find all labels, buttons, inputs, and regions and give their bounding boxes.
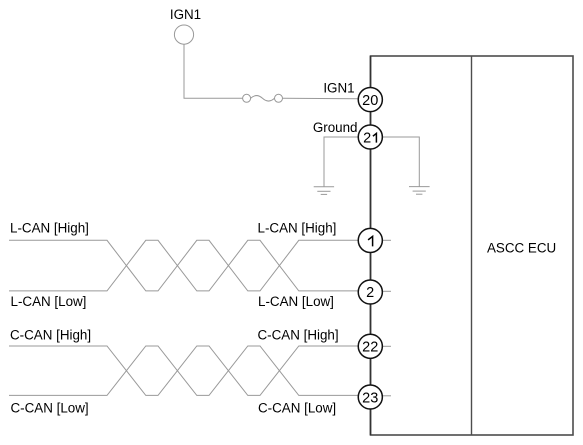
wire L-CAN twisted pair: low strand bbox=[9, 240, 359, 291]
ASCC ECU box U1 bbox=[371, 56, 574, 435]
wire fuse to pin 20 bbox=[283, 97, 360, 100]
ECU left edge pin bus wire bbox=[370, 56, 372, 435]
svg-text:L-CAN [High]: L-CAN [High] bbox=[10, 220, 89, 235]
pin 20 bbox=[358, 88, 382, 112]
wire L-CAN twisted pair: high strand bbox=[9, 240, 359, 291]
wire stub inside ECU at pin 1 bbox=[383, 239, 392, 241]
svg-text:C-CAN [High]: C-CAN [High] bbox=[258, 328, 339, 343]
wire IGN1 vertical drop bbox=[184, 44, 243, 98]
wire pin 21 to right ground bbox=[383, 137, 420, 187]
svg-text:2: 2 bbox=[366, 285, 374, 301]
pin 1 bbox=[358, 228, 382, 252]
svg-text:L-CAN [Low]: L-CAN [Low] bbox=[11, 294, 87, 309]
ground symbol right bbox=[409, 187, 430, 195]
wire stub inside ECU at pin 23 bbox=[383, 395, 392, 397]
IGN1 power source circle bbox=[174, 25, 193, 44]
svg-text:23: 23 bbox=[362, 390, 378, 406]
fuse element wave bbox=[251, 96, 275, 102]
svg-text:C-CAN [Low]: C-CAN [Low] bbox=[258, 401, 336, 416]
pin 21 bbox=[358, 125, 382, 149]
svg-text:20: 20 bbox=[362, 93, 378, 109]
svg-text:C-CAN [Low]: C-CAN [Low] bbox=[11, 401, 89, 416]
fuse left terminal circle bbox=[243, 94, 251, 102]
svg-text:ASCC ECU: ASCC ECU bbox=[487, 241, 556, 256]
wire stub inside ECU at pin 2 bbox=[383, 290, 392, 292]
svg-text:C-CAN [High]: C-CAN [High] bbox=[10, 328, 91, 343]
ground symbol left bbox=[314, 187, 334, 195]
pin 2 bbox=[358, 280, 382, 304]
wire pin 21 to left ground bbox=[324, 137, 359, 187]
pin 23 bbox=[358, 385, 382, 409]
wire C-CAN twisted pair: low strand bbox=[9, 346, 359, 395]
svg-text:L-CAN [High]: L-CAN [High] bbox=[258, 220, 337, 235]
wire C-CAN twisted pair: high strand bbox=[9, 346, 359, 395]
svg-text:2: 2 bbox=[363, 131, 371, 147]
fuse right terminal circle bbox=[275, 94, 283, 102]
svg-text:IGN1: IGN1 bbox=[170, 7, 201, 22]
ECU internal divider line bbox=[471, 56, 473, 435]
svg-text:L-CAN [Low]: L-CAN [Low] bbox=[258, 294, 334, 309]
wire stub inside ECU at pin 22 bbox=[383, 345, 392, 347]
svg-text:22: 22 bbox=[362, 340, 378, 356]
pin 22 bbox=[358, 334, 382, 358]
svg-text:Ground: Ground bbox=[313, 120, 358, 135]
svg-text:IGN1: IGN1 bbox=[323, 81, 354, 96]
